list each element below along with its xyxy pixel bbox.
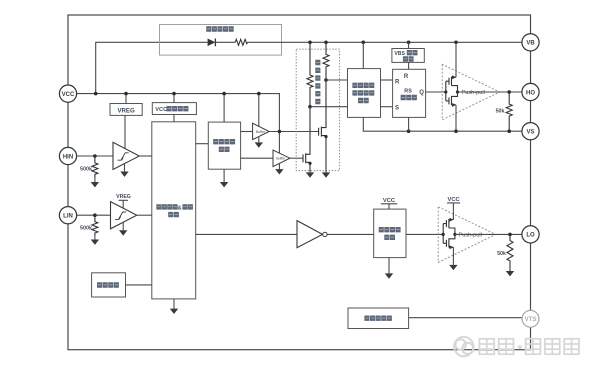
ground buffer B1	[258, 137, 260, 143]
pin VTS	[522, 310, 539, 327]
wire noise filter R out	[381, 79, 393, 81]
ground schmitt U2	[122, 222, 124, 230]
wire pulse gen to buffer B1	[241, 131, 253, 133]
svg-text:VREG: VREG	[117, 107, 135, 114]
wire UV detect to input logic box	[173, 115, 175, 122]
wire VCC to VREG	[125, 94, 127, 104]
ground delay box	[388, 258, 390, 274]
svg-text:50k: 50k	[496, 108, 505, 114]
node right resistor out	[324, 78, 328, 82]
node 50k HO tap	[507, 90, 511, 94]
wire logic to pulse gen	[196, 143, 209, 145]
ground 50k LO	[506, 271, 514, 276]
node HIN pulldown	[93, 154, 97, 158]
ground pulse gen	[223, 169, 225, 182]
svg-text:R: R	[395, 79, 400, 85]
wire inverter to delay box	[327, 233, 374, 235]
label 自举二极管	[206, 26, 234, 31]
push-pull PP1 triangle	[442, 64, 500, 119]
transistor pair PP1	[444, 75, 459, 107]
wire VCC rail	[76, 94, 279, 153]
buffer B2	[273, 150, 290, 167]
svg-text:HO: HO	[526, 90, 535, 96]
wire noise filter S out	[381, 106, 393, 108]
svg-text:Push-pull: Push-pull	[462, 90, 485, 96]
schmitt trigger U2	[111, 202, 137, 229]
wire VBS detect to RS latch R	[408, 62, 410, 69]
wire HIN to schmitt U1	[76, 155, 113, 157]
svg-text:RS: RS	[404, 89, 412, 95]
wire schmitt U1 out	[139, 155, 152, 157]
transistor pair PP2	[442, 218, 457, 250]
wire RS latch to VS rail	[408, 117, 410, 131]
ground HIN resistor	[94, 178, 96, 183]
RS latch box	[393, 69, 426, 117]
ground LIN resistor	[94, 236, 96, 239]
svg-text:500k: 500k	[80, 167, 92, 173]
overtemp detect box 过温检测	[92, 273, 126, 297]
wire logic box to inverter	[196, 233, 297, 235]
transistor M2 level shift lower	[303, 107, 310, 173]
node left resistor out	[308, 105, 312, 109]
wire noise filter to VS rail	[363, 117, 522, 131]
svg-text:Q: Q	[419, 90, 424, 96]
wire VCC to pulse gen	[223, 94, 225, 123]
schmitt trigger U1	[113, 142, 139, 169]
wire buffer B2 out to level shift M2 gate	[290, 157, 304, 159]
level shift dashed box	[296, 49, 339, 171]
pulse generator box 脉冲产生电路	[208, 122, 240, 169]
resistor 50k HO	[506, 92, 512, 131]
wire diode to resistor	[215, 41, 235, 43]
ground M2	[306, 172, 314, 177]
label 电平移位电路 vertical	[315, 60, 320, 104]
ground M1	[322, 172, 330, 177]
wire temp sensor to VTS	[409, 317, 523, 319]
svg-text:VREG: VREG	[116, 194, 131, 200]
svg-text:VCC: VCC	[155, 107, 167, 113]
push-pull PP2 triangle	[438, 207, 496, 263]
wire LIN to schmitt U2	[76, 214, 110, 216]
svg-text:LIN: LIN	[63, 214, 73, 220]
resistor bootstrap	[235, 39, 247, 45]
inverter U3	[297, 221, 323, 248]
wire VCC to bootstrap branch	[96, 42, 208, 93]
svg-text:VCC: VCC	[62, 92, 75, 98]
VCC undervoltage detect box	[152, 103, 196, 115]
node VS rail junctions	[407, 129, 411, 133]
svg-text:S: S	[395, 106, 399, 112]
pin LO	[522, 226, 539, 243]
pin VB	[522, 34, 539, 51]
node junction VCC/bootstrap	[94, 92, 98, 96]
node VB rail junctions	[308, 41, 312, 45]
watermark text 雪球·美通社	[479, 339, 579, 354]
svg-text:500k: 500k	[80, 226, 92, 232]
svg-text:HIN: HIN	[63, 154, 73, 160]
watermark logo circle	[454, 337, 473, 356]
resistor 500k LIN	[92, 215, 98, 236]
input logic box 直通防止&死区输入	[152, 122, 196, 299]
svg-text:Push-pull: Push-pull	[459, 232, 482, 238]
resistor level-shift left	[307, 42, 313, 106]
wire bootstrap out to VB rail	[248, 41, 523, 43]
svg-text:VB: VB	[526, 41, 535, 47]
pin HIN	[59, 147, 76, 164]
svg-text:R: R	[404, 74, 409, 80]
svg-text:Buffer: Buffer	[276, 157, 286, 161]
pin VCC	[59, 85, 76, 102]
svg-text:VCC: VCC	[383, 198, 396, 204]
wire schmitt U2 out	[137, 214, 152, 216]
wire VB to PP1 supply	[455, 42, 457, 77]
transistor M1 level shift upper	[319, 80, 326, 172]
IC outer boundary	[68, 15, 531, 350]
svg-text:VTS: VTS	[525, 317, 537, 323]
svg-text:VCC: VCC	[447, 197, 460, 203]
pin HO	[522, 83, 539, 100]
regulator VREG box	[110, 104, 142, 116]
wire VB to noise filter supply	[362, 42, 364, 68]
temp sensor box 温度传感器	[348, 308, 409, 329]
ground buffer B2	[278, 164, 280, 170]
svg-text:50k: 50k	[497, 251, 506, 257]
ground PP2	[452, 247, 454, 265]
wire overtemp to logic box	[126, 284, 152, 286]
bootstrap diode box	[160, 25, 282, 56]
svg-text:Buffer: Buffer	[256, 130, 266, 134]
diode D1	[208, 39, 216, 47]
wire VCC to buffer B1 supply	[258, 94, 260, 127]
wire VB to VBS detect	[408, 42, 410, 48]
resistor 500k HIN	[92, 156, 98, 178]
wire buffer B1 out to level shift M1 gate	[269, 131, 319, 133]
ground schmitt U1	[124, 164, 126, 172]
wire left resistor to noise filter	[310, 106, 348, 108]
svg-text:LO: LO	[526, 233, 535, 239]
wire PP1 to VS rail	[455, 105, 457, 131]
resistor 50k LO	[507, 234, 513, 271]
wire VCC to UV detect	[173, 94, 175, 103]
wire VREG to schmitt U1 supply	[124, 115, 126, 148]
pin VS	[522, 123, 539, 140]
ground input logic box	[173, 299, 175, 309]
VBS undervoltage detect box	[392, 49, 424, 63]
wire RS latch Q to push-pull PP1	[426, 91, 446, 93]
wire delay box to push-pull PP2	[406, 233, 443, 235]
wire pulse gen to buffer B2	[241, 157, 273, 159]
resistor level-shift right	[323, 42, 329, 80]
wire PP2 out to LO	[455, 233, 522, 235]
pin LIN	[59, 207, 76, 224]
noise filter box 共模抑制噪声滤波电路	[348, 69, 381, 118]
svg-text:VS: VS	[526, 130, 534, 136]
buffer B1	[253, 123, 270, 139]
wire right resistor to noise filter	[326, 79, 348, 81]
delay match box 延时匹配电路	[374, 209, 406, 258]
node LIN pulldown	[93, 213, 97, 217]
node 50k LO tap	[508, 233, 512, 237]
supply bar schmitt U2	[119, 200, 128, 207]
svg-text:&: &	[178, 205, 182, 211]
wire PP1 out to HO	[458, 91, 523, 93]
